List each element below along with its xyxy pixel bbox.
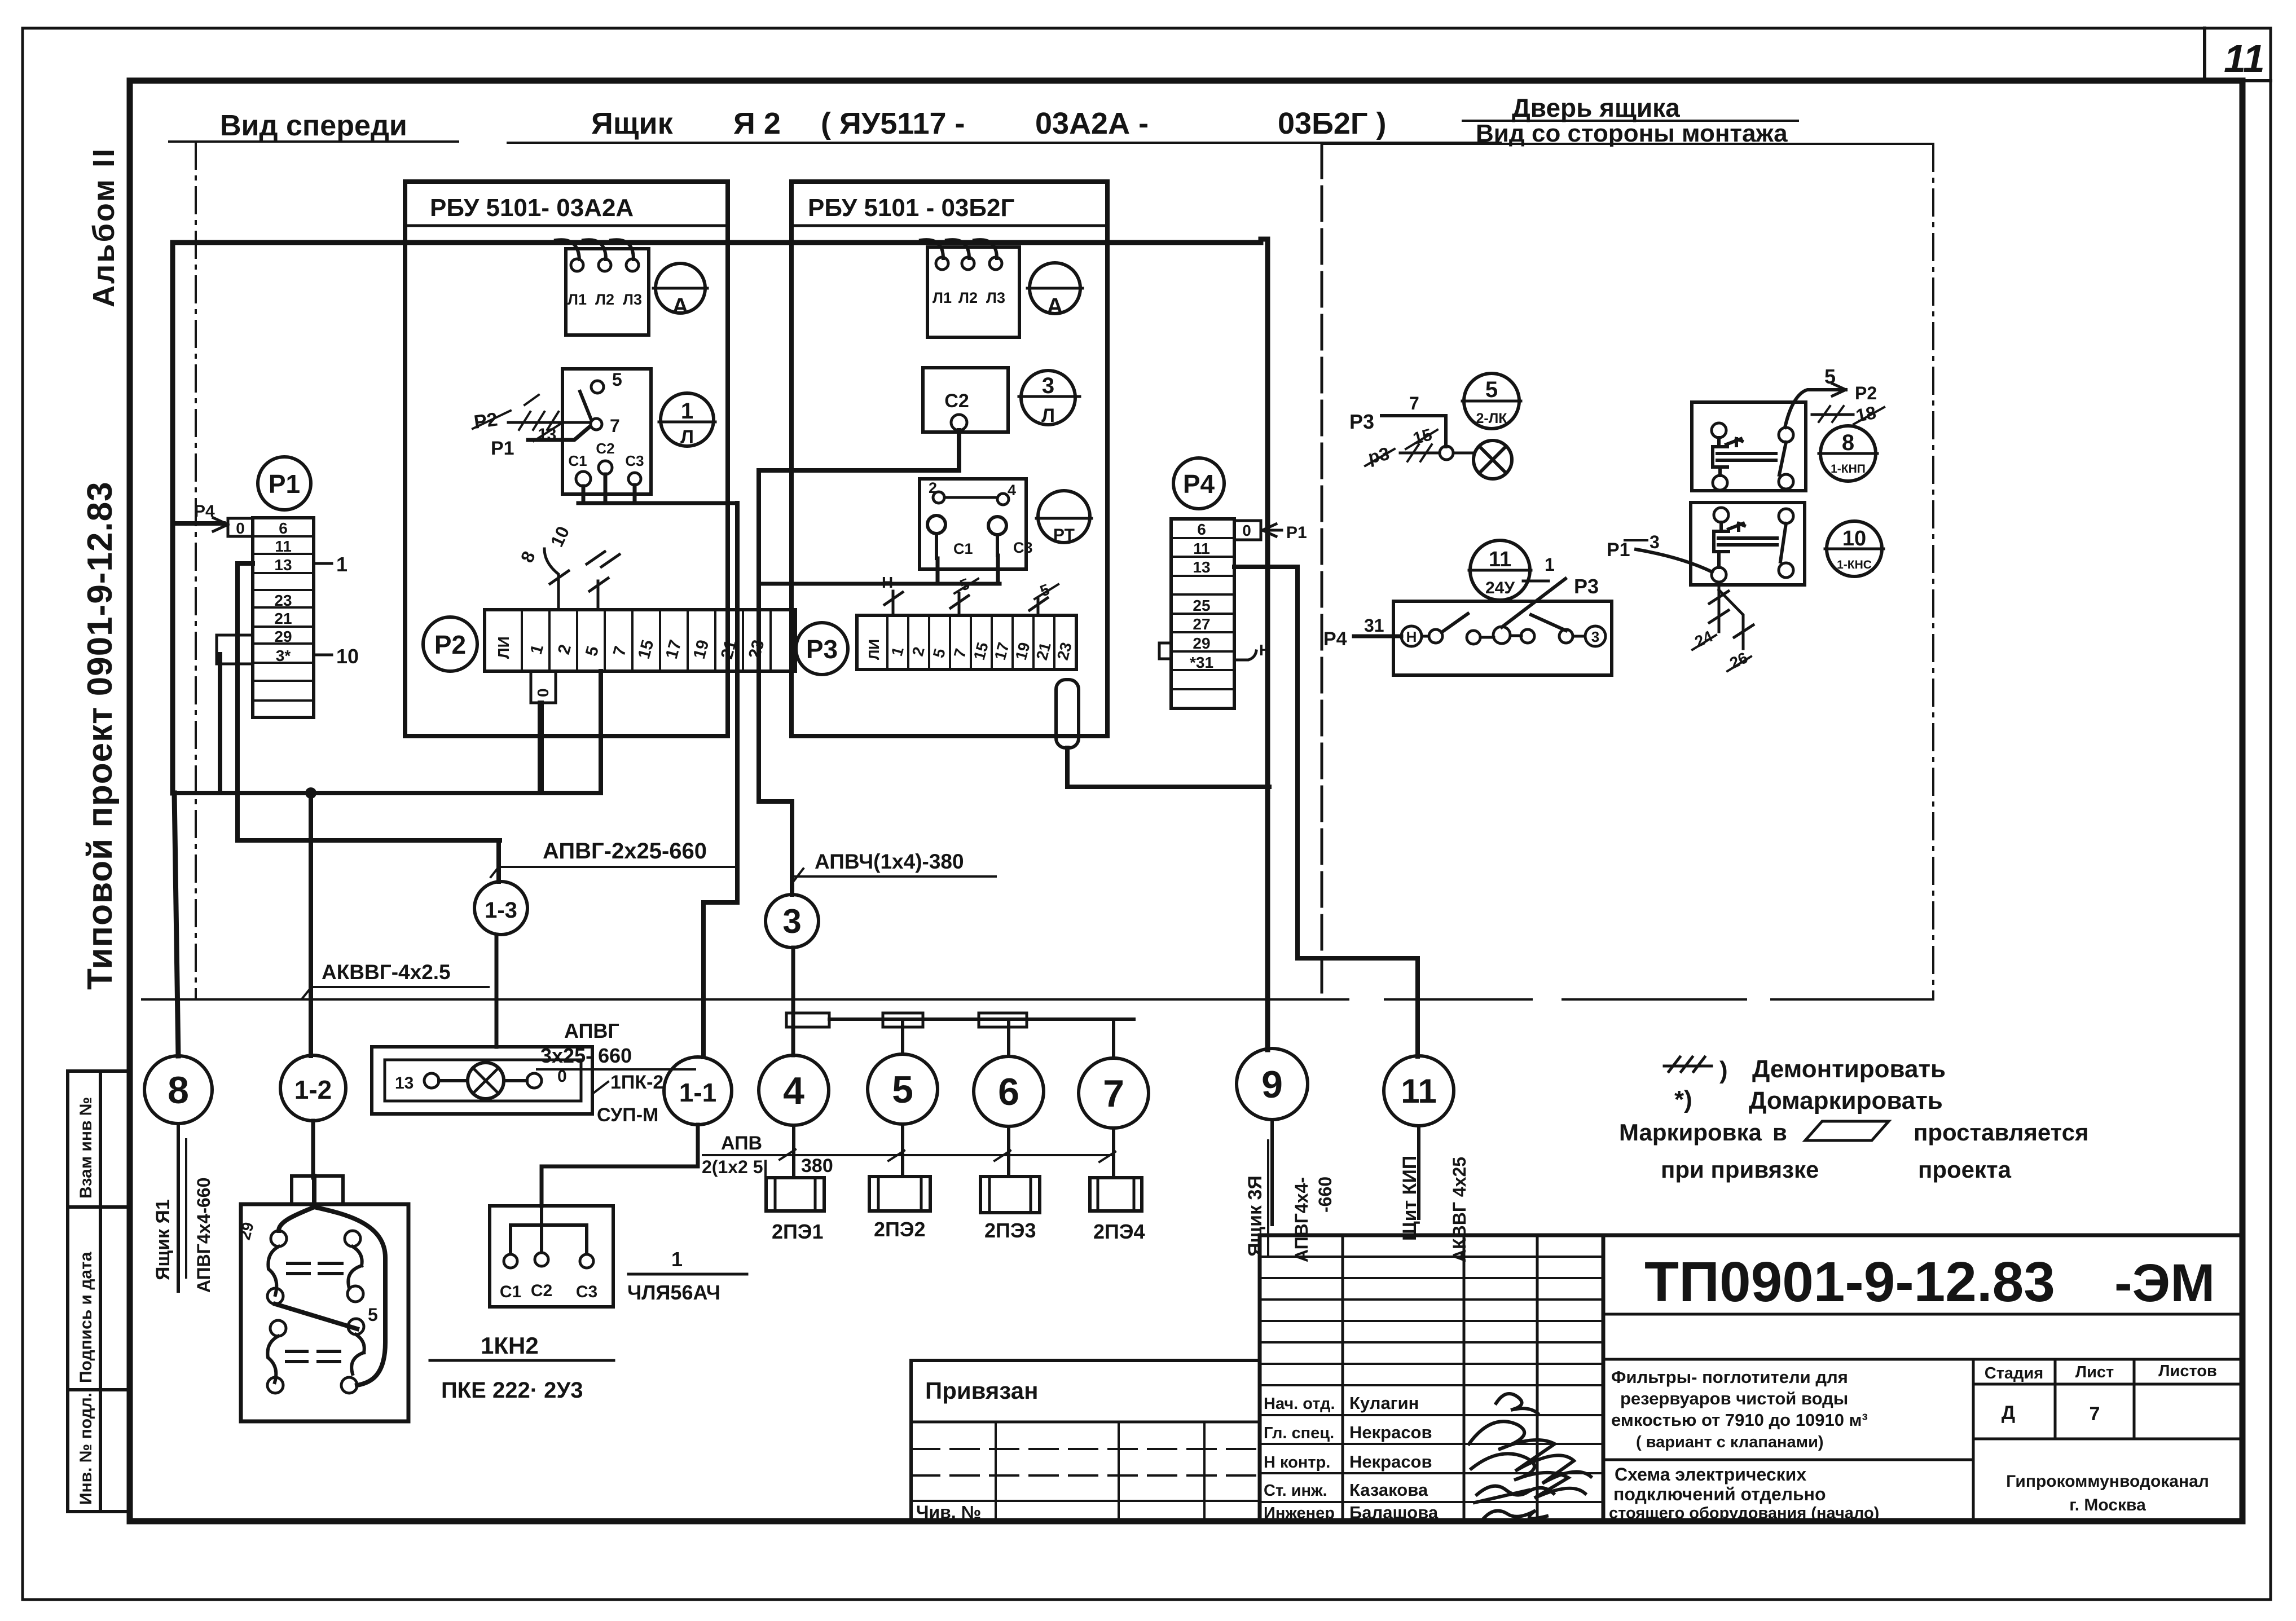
svg-text:3: 3: [782, 902, 801, 940]
cable marker circle 11: [1384, 1056, 1454, 1126]
svg-text:Кулагин: Кулагин: [1349, 1393, 1419, 1413]
svg-text:10: 10: [336, 645, 359, 668]
svg-text:1-1: 1-1: [679, 1078, 716, 1107]
wire C2 down into RT box: [759, 430, 959, 584]
svg-text:А: А: [1047, 294, 1063, 319]
strip P4 H tap: [1234, 651, 1256, 660]
svg-text:3: 3: [1650, 532, 1660, 552]
cable marker circle 8: [144, 1056, 212, 1124]
relay P1 circle: [258, 457, 311, 510]
svg-text:Лист: Лист: [2075, 1363, 2114, 1381]
svg-text:6: 6: [998, 1071, 1019, 1113]
hook wires into B2G ammeter terminals: [921, 240, 997, 258]
relay P3 circle: [796, 623, 848, 675]
pin 7: [591, 419, 602, 430]
connector plug below strip P3: [1056, 680, 1079, 748]
strip P1 node 1 tap: [314, 562, 332, 565]
cable marker circle 9: [1237, 1049, 1308, 1120]
circle 5 / 2-LK: [1464, 373, 1519, 429]
fuse link bus above circles 5..7: [829, 1019, 1134, 1058]
svg-text:31: 31: [1364, 615, 1384, 636]
terminal box L1 L2 L3 (A2A): [566, 249, 649, 335]
svg-text:3*: 3*: [276, 647, 291, 664]
svg-text:11: 11: [1489, 548, 1511, 571]
wire P4 node13 to cable 11: [1234, 567, 1418, 1056]
svg-text:5: 5: [368, 1305, 378, 1325]
svg-text:25: 25: [1193, 597, 1210, 614]
parallelogram symbol: [1805, 1121, 1889, 1140]
svg-text:АКВВГ 4х25: АКВВГ 4х25: [1449, 1157, 1470, 1262]
svg-text:0: 0: [236, 519, 245, 537]
svg-text:1-2: 1-2: [294, 1075, 332, 1104]
strip P2 sub-cell 0: [531, 671, 556, 703]
circle 10 / 1-KNS: [1827, 521, 1882, 576]
svg-text:*): *): [1674, 1086, 1692, 1113]
strip P4 left tick cell: [1159, 643, 1171, 659]
svg-text:3: 3: [1042, 373, 1054, 398]
wire left to circle 3 cable: [759, 584, 792, 895]
heater plug 2PE2: [869, 1177, 930, 1211]
svg-text:3х25- 660: 3х25- 660: [540, 1044, 632, 1067]
svg-text:С2: С2: [531, 1281, 552, 1300]
svg-text:РБУ 5101 - 03Б2Г: РБУ 5101 - 03Б2Г: [808, 194, 1014, 222]
svg-text:1: 1: [336, 553, 348, 576]
wire from strip right portion down: [599, 671, 603, 793]
svg-text:10: 10: [1842, 527, 1866, 550]
svg-text:Инв. № подл.: Инв. № подл.: [77, 1393, 95, 1505]
privyazan box: [911, 1360, 1260, 1521]
svg-text:1: 1: [681, 399, 693, 424]
svg-text:24У: 24У: [1485, 579, 1515, 597]
svg-text:4: 4: [783, 1069, 804, 1112]
svg-text:2: 2: [929, 479, 937, 496]
svg-text:13: 13: [274, 556, 292, 574]
thin distribution line with arrows: [703, 1149, 1115, 1162]
svg-text:380: 380: [801, 1155, 833, 1177]
svg-text:Типовой проект 0901-9-12.83: Типовой проект 0901-9-12.83: [81, 481, 120, 990]
RT thermal relay box: [920, 479, 1026, 569]
svg-text:Нач. отд.: Нач. отд.: [1264, 1395, 1335, 1413]
wire W1: P1 node13 to circle 1-3: [237, 563, 540, 882]
push button 1-KNP: [1692, 402, 1806, 491]
svg-text:С1: С1: [568, 452, 587, 469]
stage/sheet cells: [1603, 1359, 2242, 1521]
svg-text:29: 29: [1193, 635, 1210, 652]
strip P1 node 10 tap: [314, 654, 332, 657]
wire P1: [528, 426, 590, 440]
wires below RT heaters: [759, 556, 1000, 584]
svg-text:1: 1: [1545, 554, 1555, 575]
page number box: [2205, 28, 2271, 81]
cable marker circle 4: [759, 1055, 829, 1125]
cable marker circle 7: [1079, 1058, 1149, 1128]
wires circles to heater plugs: [794, 1124, 1114, 1178]
svg-text:1КН2: 1КН2: [481, 1332, 539, 1359]
svg-text:Листов: Листов: [2158, 1362, 2217, 1380]
svg-text:11: 11: [1193, 540, 1210, 557]
box U-A2A: [405, 182, 728, 736]
door right dash-dot edge: [1932, 145, 1934, 999]
svg-text:Д: Д: [2002, 1402, 2015, 1424]
svg-text:Р4: Р4: [1323, 628, 1347, 650]
svg-text:Вид со стороны монтажа: Вид со стороны монтажа: [1476, 120, 1788, 147]
junction node: [1440, 446, 1453, 460]
terminal strip P3: [857, 615, 1076, 669]
long thin bottom line of cabinet views: [142, 998, 1933, 1001]
svg-text:Щит КИП: Щит КИП: [1399, 1156, 1420, 1241]
circle 3/L lamp ref (B2G): [1021, 371, 1075, 425]
svg-text:Фильтры- поглотители для: Фильтры- поглотители для: [1611, 1367, 1848, 1387]
box U-B2G: [791, 182, 1107, 736]
switch PP box (A2A): [562, 369, 651, 494]
svg-text:-ЭМ: -ЭМ: [2114, 1253, 2215, 1313]
svg-text:С2: С2: [596, 440, 614, 457]
terminal box L1 L2 L3 (B2G): [927, 247, 1019, 337]
svg-text:0: 0: [534, 688, 552, 697]
lamp symbol: [468, 1063, 504, 1099]
svg-text:Р4: Р4: [194, 502, 215, 521]
demontage hooks above strip P2: [544, 549, 619, 610]
svg-text:03А2А -: 03А2А -: [1035, 107, 1149, 140]
svg-text:Л: Л: [680, 426, 694, 448]
svg-text:Ящик: Ящик: [591, 107, 674, 140]
svg-text:Р2: Р2: [434, 630, 466, 659]
junction: [305, 787, 316, 799]
svg-text:С3: С3: [625, 452, 644, 469]
ammeter A circle (B2G): [1030, 263, 1080, 314]
svg-text:Схема электрических: Схема электрических: [1615, 1464, 1806, 1485]
svg-text:3: 3: [1591, 628, 1599, 645]
PKE blade: [275, 1304, 357, 1329]
demontage hooks above strip P3: [885, 591, 1048, 615]
svg-text:Р1: Р1: [1607, 539, 1630, 561]
svg-text:Казакова: Казакова: [1349, 1480, 1428, 1500]
svg-text:Взам инв №: Взам инв №: [77, 1097, 95, 1199]
svg-text:Р1: Р1: [269, 469, 300, 499]
svg-text:при привязке: при привязке: [1661, 1156, 1819, 1183]
TP0901-9-12.83 -EM cell: [1603, 1314, 2242, 1359]
svg-text:Р2: Р2: [1855, 383, 1877, 403]
svg-text:г. Москва: г. Москва: [2069, 1496, 2146, 1514]
svg-text:Р3: Р3: [806, 635, 838, 664]
svg-text:( ЯУ5117 -: ( ЯУ5117 -: [821, 107, 965, 140]
svg-text:2ПЭ2: 2ПЭ2: [874, 1218, 926, 1241]
svg-text:Гипрокоммунводоканал: Гипрокоммунводоканал: [2006, 1472, 2209, 1491]
wire into VN box: [1354, 635, 1401, 638]
svg-text:подключений отдельно: подключений отдельно: [1613, 1484, 1826, 1504]
svg-text:АКВВГ-4х2.5: АКВВГ-4х2.5: [322, 961, 451, 984]
cable marker circle 6: [974, 1056, 1044, 1126]
svg-text:РТ: РТ: [1053, 526, 1075, 544]
main left wire down to cable 8: [170, 243, 175, 793]
svg-text:Ящик Я1: Ящик Я1: [152, 1199, 174, 1280]
heater plug 2PE4: [1090, 1178, 1142, 1211]
motor terminals box C1C2C3: [490, 1206, 613, 1307]
svg-text:Ст. инж.: Ст. инж.: [1264, 1482, 1327, 1500]
svg-text:1ПК-2: 1ПК-2: [610, 1072, 663, 1093]
svg-text:Л2: Л2: [595, 291, 614, 308]
svg-text:Р3: Р3: [1574, 575, 1599, 598]
C2 element box (B2G): [923, 368, 1008, 432]
circle 1/L lamp ref (A2A): [661, 393, 714, 446]
left bottom stamp table: [68, 1071, 131, 1512]
svg-text:Привязан: Привязан: [925, 1377, 1038, 1404]
relay P2 circle: [423, 617, 477, 671]
main top wire from left: [173, 240, 1261, 245]
cabinet left dash-dot edge: [195, 143, 197, 999]
svg-text:Л3: Л3: [623, 291, 642, 308]
svg-text:23: 23: [274, 592, 292, 609]
svg-text:Л: Л: [1041, 405, 1055, 426]
svg-text:АПВГ4х4-660: АПВГ4х4-660: [193, 1178, 214, 1293]
svg-text:2ПЭ3: 2ПЭ3: [984, 1219, 1036, 1242]
svg-text:0: 0: [1242, 522, 1251, 539]
svg-text:1-КНП: 1-КНП: [1831, 462, 1866, 475]
svg-text:Я 2: Я 2: [733, 107, 781, 140]
blade: [580, 391, 591, 420]
svg-text:*31: *31: [1190, 654, 1213, 671]
PKE contacts upper element: [271, 1231, 287, 1246]
svg-text:6: 6: [1197, 521, 1206, 538]
svg-text:( вариант с клапанами): ( вариант с клапанами): [1636, 1433, 1824, 1451]
svg-text:ТП0901-9-12.83: ТП0901-9-12.83: [1644, 1250, 2055, 1314]
cabinet / door divider edge: [1321, 144, 1323, 999]
heater C3: [988, 517, 1006, 535]
PKE contacts lower element: [270, 1320, 286, 1336]
svg-text:Некрасов: Некрасов: [1349, 1422, 1432, 1442]
wire from plug to vertical cable 9 wire: [1067, 748, 1269, 787]
svg-text:2(1х2 5|: 2(1х2 5|: [702, 1157, 768, 1177]
strip P4 0-cell with P1 arrow: [1234, 521, 1261, 540]
svg-text:ЧЛЯ56АЧ: ЧЛЯ56АЧ: [627, 1281, 720, 1304]
signature squiggles: [1469, 1394, 1591, 1518]
svg-text:ПКЕ 222· 2У3: ПКЕ 222· 2У3: [441, 1378, 583, 1403]
cable marker circle 1-1: [664, 1057, 732, 1125]
svg-text:1-3: 1-3: [485, 898, 517, 923]
cable marker circle 1-3: [474, 882, 527, 935]
svg-text:8: 8: [168, 1069, 189, 1112]
heater plug 2PE1: [766, 1178, 824, 1211]
heater C1: [927, 516, 945, 534]
svg-text:АПВГ-2х25-660: АПВГ-2х25-660: [543, 839, 707, 864]
wire from VN switch to P3: [1502, 579, 1565, 627]
svg-text:Гл. спец.: Гл. спец.: [1264, 1424, 1334, 1442]
svg-text:Стадия: Стадия: [1985, 1364, 2043, 1382]
svg-text:АПВЧ(1х4)-380: АПВЧ(1х4)-380: [815, 850, 964, 873]
heater plug 2PE3: [980, 1177, 1040, 1213]
svg-text:Некрасов: Некрасов: [1349, 1452, 1432, 1472]
svg-text:11: 11: [275, 538, 292, 555]
svg-text:6: 6: [279, 519, 288, 537]
internal bus of PKE: [279, 1176, 385, 1385]
svg-text:Домаркировать: Домаркировать: [1749, 1087, 1943, 1115]
relay P4 circle: [1173, 458, 1224, 509]
svg-text:С3: С3: [1013, 539, 1033, 556]
svg-text:): ): [1719, 1056, 1728, 1084]
svg-text:АПВГ: АПВГ: [564, 1019, 619, 1042]
VN switch box: [1393, 601, 1612, 675]
svg-text:7: 7: [1409, 393, 1419, 413]
svg-text:2ПЭ1: 2ПЭ1: [772, 1220, 824, 1243]
svg-text:Р3: Р3: [1349, 410, 1374, 433]
svg-text:в: в: [1772, 1119, 1787, 1146]
svg-text:5: 5: [892, 1068, 913, 1111]
svg-text:проставляется: проставляется: [1914, 1119, 2089, 1146]
svg-text:Инженер: Инженер: [1264, 1504, 1335, 1522]
svg-text:С1: С1: [500, 1283, 521, 1301]
svg-text:Р4: Р4: [1183, 469, 1215, 499]
svg-text:Подпись и дата: Подпись и дата: [77, 1252, 95, 1383]
svg-text:2ПЭ4: 2ПЭ4: [1093, 1220, 1145, 1243]
cable 3 circle: [766, 895, 819, 948]
svg-text:27: 27: [1193, 615, 1210, 633]
svg-text:4: 4: [1008, 482, 1016, 499]
svg-text:РБУ 5101- 03А2А: РБУ 5101- 03А2А: [430, 194, 634, 222]
svg-text:8: 8: [1842, 430, 1854, 455]
svg-text:ЛИ: ЛИ: [495, 636, 512, 659]
svg-text:1-КНС: 1-КНС: [1837, 558, 1872, 571]
svg-text:стоящего оборудования (начал: стоящего оборудования (начало): [1609, 1504, 1879, 1522]
demounted 18 wire: [1812, 413, 1853, 416]
push button 1-KNS: [1691, 503, 1805, 585]
wire circle 3 down to circle 4: [791, 948, 795, 1055]
svg-text:1: 1: [671, 1248, 683, 1271]
svg-text:Р1: Р1: [1286, 523, 1307, 542]
svg-text:03Б2Г ): 03Б2Г ): [1278, 107, 1387, 140]
svg-text:7: 7: [1103, 1072, 1124, 1115]
svg-text:проекта: проекта: [1918, 1156, 2012, 1183]
svg-text:Чив. №: Чив. №: [916, 1502, 981, 1522]
svg-text:Н контр.: Н контр.: [1264, 1453, 1330, 1472]
svg-text:11: 11: [2224, 37, 2265, 81]
header underlines: [169, 142, 1933, 144]
wire from frame to P1 0-cell: [173, 521, 223, 526]
svg-text:Р2: Р2: [473, 409, 499, 433]
PKE 222 switch box: [241, 1204, 408, 1421]
svg-text:А: А: [672, 294, 689, 319]
svg-text:7: 7: [610, 416, 620, 436]
svg-text:АПВ: АПВ: [721, 1133, 762, 1154]
svg-text:Р1: Р1: [491, 438, 514, 459]
svg-text:Дверь ящика: Дверь ящика: [1512, 93, 1680, 122]
svg-text:Н: Н: [1406, 628, 1417, 645]
svg-text:5: 5: [612, 369, 622, 390]
fuse links: [786, 1013, 829, 1027]
svg-text:Демонтировать: Демонтировать: [1752, 1055, 1946, 1083]
svg-text:13: 13: [1193, 558, 1210, 576]
wire from 0-cell down: [539, 703, 544, 793]
svg-text:резервуаров чистой воды: резервуаров чистой воды: [1620, 1389, 1848, 1408]
terminal strip P1: [253, 518, 314, 717]
svg-text:Ящик 3Я: Ящик 3Я: [1244, 1175, 1266, 1257]
svg-text:11: 11: [1401, 1072, 1436, 1110]
ammeter A circle (A2A): [656, 263, 705, 313]
svg-text:5: 5: [1824, 365, 1836, 388]
terminal strip P4: [1171, 519, 1234, 708]
svg-text:9: 9: [1261, 1063, 1283, 1106]
strip P1 0-cell: [228, 518, 253, 536]
svg-text:ЛИ: ЛИ: [865, 639, 882, 660]
lamp box SUP-M: [372, 1047, 592, 1114]
svg-text:-660: -660: [1315, 1177, 1335, 1213]
demontage marks below: [1709, 582, 1753, 649]
hook wires into A2A ammeter terminals: [556, 240, 634, 259]
demount mark legend: [1664, 1057, 1712, 1072]
wires C1C2C3 to bus: [578, 474, 737, 503]
circle 8 / 1-KNP: [1820, 426, 1876, 481]
svg-text:Маркировка: Маркировка: [1619, 1119, 1762, 1146]
svg-text:29: 29: [274, 628, 292, 645]
svg-text:Л2: Л2: [958, 289, 978, 306]
cable marker circle 1-2: [280, 1055, 346, 1121]
wire P2 (demounted): [508, 421, 589, 424]
svg-text:Н: Н: [882, 574, 893, 591]
svg-text:С2: С2: [944, 390, 969, 412]
lamp: [1474, 441, 1512, 479]
svg-text:21: 21: [274, 610, 292, 627]
svg-text:СУП-М: СУП-М: [597, 1104, 658, 1126]
svg-text:С3: С3: [576, 1283, 597, 1301]
svg-text:Л3: Л3: [986, 289, 1005, 306]
change-table empty rows: [1260, 1257, 1603, 1502]
svg-text:2-ЛК: 2-ЛК: [1476, 411, 1507, 426]
pin 5: [591, 381, 604, 393]
strip P1 left protrusion cell: [217, 635, 253, 664]
svg-text:13: 13: [395, 1074, 414, 1093]
svg-text:Альбом II: Альбом II: [87, 147, 121, 307]
svg-text:Балашова: Балашова: [1349, 1503, 1439, 1522]
main vertical wire to cable 9: [1261, 239, 1268, 1050]
svg-text:емкостью от 7910 до 10910 м³: емкостью от 7910 до 10910 м³: [1611, 1410, 1868, 1430]
terminal strip P2: [485, 610, 795, 671]
svg-text:С1: С1: [953, 540, 973, 557]
svg-text:5: 5: [1485, 377, 1498, 402]
svg-text:7: 7: [2090, 1403, 2100, 1425]
svg-text:Л1: Л1: [568, 291, 587, 308]
RT circle: [1038, 491, 1090, 543]
svg-text:Л1: Л1: [933, 289, 952, 306]
wire to P2 with 5: [1785, 390, 1846, 428]
wire W2: P1 protrusion to P2 strip: [173, 654, 601, 793]
circle 11 / 24U: [1470, 540, 1530, 600]
wire P1-3 into 1-KNS: [1636, 549, 1712, 572]
svg-text:Вид спереди: Вид спереди: [220, 109, 407, 142]
svg-text:АПВГ4х4-: АПВГ4х4-: [1291, 1177, 1312, 1262]
wire to circle 1-2: [309, 793, 313, 1056]
cable marker circle 5: [868, 1054, 938, 1124]
label 1PK-2 / SUP-M: [593, 1082, 608, 1093]
